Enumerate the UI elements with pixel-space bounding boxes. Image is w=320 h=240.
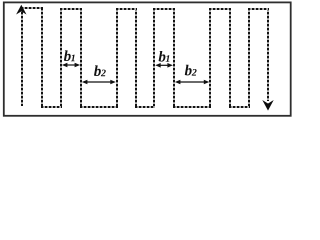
wire vertical pass 9 x=210: [209, 8, 211, 107]
start arrow (up) at top of pass 1: [18, 6, 26, 13]
wire top connector x=61-81: [60, 8, 82, 10]
b1 label right: [159, 51, 166, 62]
wire bottom connector x=174-210: [173, 106, 211, 108]
wire bottom connector x=136-154: [135, 106, 155, 108]
outer border frame: [4, 2, 291, 115]
b1 label left: [64, 50, 71, 61]
wire vertical pass 6 x=136: [135, 8, 137, 107]
b2 label left: [94, 65, 101, 76]
wire bottom connector x=42-61: [41, 106, 62, 108]
wire vertical pass 4 x=81: [80, 8, 82, 107]
wire top connector x=210-230: [209, 8, 231, 10]
wire top connector x=22-42: [21, 7, 43, 9]
wire vertical pass 8 x=173: [173, 8, 175, 107]
wire bottom connector x=81-117: [80, 106, 118, 108]
end arrow (down) at bottom of pass 12: [264, 102, 272, 110]
b2 label right: [185, 65, 192, 76]
wire vertical pass 5 x=117: [116, 8, 118, 107]
b2 dimension arrow left: [82, 80, 116, 85]
wire vertical pass 11 x=249: [248, 8, 250, 107]
wire vertical pass 12 (end) x=268: [267, 8, 269, 101]
wire vertical pass 10 x=230: [229, 8, 231, 107]
b1 dimension arrow right: [155, 63, 173, 68]
wire vertical pass 7 x=154: [153, 8, 155, 107]
wire top connector x=117-136: [116, 8, 137, 10]
wire top connector x=154-174: [153, 8, 175, 10]
wire vertical pass 2 x=42: [41, 8, 43, 107]
wire vertical pass 3 x=61: [60, 8, 62, 107]
wire top connector x=249-268: [248, 8, 269, 10]
wire vertical pass 1 (start) x=22: [21, 8, 23, 106]
b1 dimension arrow left: [62, 63, 80, 68]
b2 dimension arrow right: [175, 80, 209, 85]
wire bottom connector x=230-249: [229, 106, 250, 108]
